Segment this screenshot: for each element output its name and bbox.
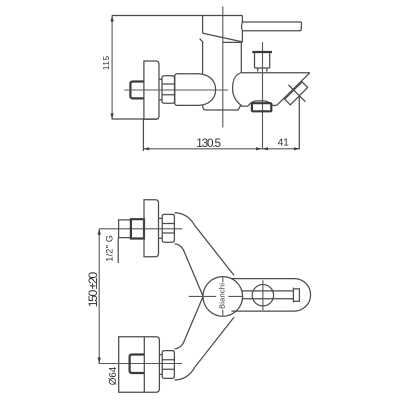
- spout top edge: [241, 72, 310, 74]
- top hex nut: [162, 214, 174, 242]
- cap right edge: [241, 16, 243, 42]
- arrow down 115: [110, 113, 113, 119]
- body top line: [222, 41, 242, 43]
- mount centerline: [124, 89, 228, 91]
- sphere body: [203, 277, 243, 317]
- hub vertical centerline: [262, 280, 264, 310]
- arrow right 41: [294, 147, 300, 150]
- bottom connector lines: [159, 355, 162, 375]
- arrow down 150: [98, 358, 101, 364]
- arrows middle tick: [256, 147, 268, 150]
- svg-text:Ø64: Ø64: [108, 366, 119, 385]
- hex nut: [162, 76, 175, 104]
- extension line top (115) + cap top edge: [112, 15, 243, 17]
- extension line left (130.5): [142, 120, 144, 152]
- svg-text:Bianchi: Bianchi: [218, 283, 227, 309]
- body left fillet + bottom + right fillet: [203, 105, 242, 110]
- svg-text:41: 41: [278, 137, 290, 148]
- arrow left 130.5: [143, 147, 149, 150]
- shower outlet cross line: [288, 85, 305, 102]
- centerline spout axis: [262, 42, 264, 149]
- spout underside hump: [248, 101, 272, 106]
- wall stub (bold): [130, 82, 144, 99]
- top arm outer edge: [175, 213, 235, 276]
- spout bottom edge right: [272, 104, 277, 106]
- diverter knob cap (bold): [252, 51, 272, 53]
- bottom arm outer edge: [175, 317, 235, 380]
- top stub: [119, 220, 131, 238]
- diverter knob neck: [258, 68, 267, 72]
- lever rod: [242, 291, 294, 299]
- aerator (bold): [252, 103, 271, 111]
- spout dome arc into body: [233, 73, 242, 106]
- arrow up 115: [110, 16, 113, 22]
- bottom stub (bold): [130, 355, 145, 374]
- dimension line 150 +-20: [98, 229, 100, 364]
- cap bottom-left small diagonal: [200, 39, 204, 43]
- top escutcheon: [144, 200, 159, 257]
- top nut facets: [162, 224, 174, 234]
- svg-text:115: 115: [101, 56, 111, 71]
- handle lever: [242, 22, 302, 31]
- rod end cap: [293, 289, 299, 301]
- sphere horizontal centerline: [189, 295, 243, 297]
- dimension line 115: [111, 16, 113, 120]
- body left edge upper: [202, 43, 204, 74]
- union sleeve with dome: [175, 74, 216, 106]
- svg-text:1/2" G: 1/2" G: [105, 235, 115, 262]
- spout diagonal face: [277, 73, 310, 106]
- extension line shower to dim: [298, 96, 300, 149]
- arrow up 150: [98, 229, 101, 235]
- capsule lever housing: [232, 279, 311, 312]
- cap left edge: [202, 16, 204, 34]
- connector lines escutcheon-nut: [159, 79, 162, 99]
- bottom mount axis: [99, 363, 183, 365]
- hub circle: [252, 285, 273, 306]
- rod end tick: [292, 288, 294, 303]
- top union (bold): [131, 219, 144, 238]
- body right edge upper: [240, 43, 242, 73]
- nut facet lines: [162, 84, 175, 95]
- svg-text:130.5: 130.5: [196, 136, 221, 150]
- extension line 1/2 G: [117, 238, 119, 263]
- shower outlet rotated square: [285, 82, 308, 105]
- bottom arm inner edge: [175, 297, 204, 349]
- sphere vertical centerline stubs: [222, 277, 224, 315]
- top connector lines: [159, 218, 163, 238]
- bottom hex nut: [162, 351, 174, 379]
- bottom nut facets: [162, 360, 174, 370]
- top arm inner edge: [175, 244, 204, 296]
- top mount axis: [99, 228, 182, 230]
- bottom escutcheon block: [119, 337, 160, 393]
- dimension line 130.5 / 41: [143, 148, 300, 150]
- escutcheon side view: [144, 61, 159, 119]
- spout underside left connector: [241, 105, 248, 107]
- bottom escutcheon divider: [143, 337, 145, 393]
- extension line bottom (115): [112, 118, 158, 120]
- svg-text:150 ±20: 150 ±20: [86, 272, 100, 308]
- centerline body axis: [222, 7, 224, 128]
- cap bottom diagonal: [202, 33, 242, 42]
- diverter knob body: [255, 53, 270, 68]
